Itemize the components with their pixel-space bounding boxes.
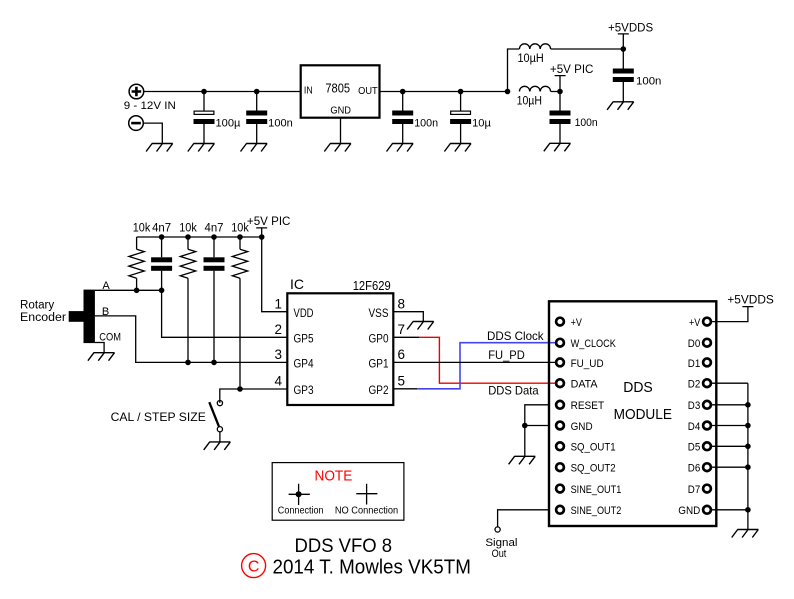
svg-text:10k: 10k [133, 223, 151, 235]
svg-text:100n: 100n [414, 118, 438, 130]
svg-text:D6: D6 [688, 463, 701, 475]
svg-text:D7: D7 [688, 484, 701, 496]
svg-text:GND: GND [330, 105, 351, 117]
svg-text:GP5: GP5 [294, 334, 314, 346]
svg-text:SINE_OUT1: SINE_OUT1 [571, 484, 622, 496]
svg-text:A: A [102, 280, 110, 292]
svg-text:W_CLOCK: W_CLOCK [571, 338, 617, 350]
svg-text:B: B [102, 306, 109, 318]
svg-text:IC: IC [290, 276, 304, 292]
svg-text:Connection: Connection [278, 505, 324, 517]
svg-text:D1: D1 [688, 358, 701, 370]
svg-text:100n: 100n [268, 118, 293, 130]
svg-text:9 - 12V IN: 9 - 12V IN [124, 100, 176, 112]
svg-text:10µH: 10µH [517, 53, 543, 65]
svg-text:7: 7 [398, 322, 406, 337]
svg-text:100n: 100n [636, 76, 661, 88]
svg-text:DDS Clock: DDS Clock [487, 329, 545, 343]
svg-text:GP1: GP1 [369, 359, 389, 371]
svg-text:DDS Data: DDS Data [488, 384, 539, 398]
svg-text:GND: GND [571, 421, 593, 433]
svg-text:CAL / STEP SIZE: CAL / STEP SIZE [111, 410, 206, 424]
svg-text:+V: +V [571, 317, 583, 329]
svg-text:1: 1 [274, 296, 282, 311]
svg-text:FU_UD: FU_UD [571, 358, 604, 370]
svg-text:GND: GND [678, 505, 700, 517]
svg-text:GP2: GP2 [369, 385, 389, 397]
svg-text:2: 2 [274, 322, 282, 337]
svg-text:NO Connection: NO Connection [335, 505, 398, 517]
svg-text:GP3: GP3 [294, 385, 314, 397]
svg-text:4n7: 4n7 [152, 223, 171, 235]
svg-text:10k: 10k [179, 223, 197, 235]
svg-text:NOTE: NOTE [315, 468, 353, 484]
svg-text:D5: D5 [688, 442, 701, 454]
svg-text:C: C [248, 559, 260, 576]
svg-text:D2: D2 [688, 379, 701, 391]
svg-text:+5VDDS: +5VDDS [608, 20, 653, 34]
svg-text:SINE_OUT2: SINE_OUT2 [571, 505, 622, 517]
svg-text:+5V PIC: +5V PIC [550, 64, 594, 76]
svg-text:10k: 10k [231, 223, 249, 235]
svg-text:100n: 100n [575, 117, 598, 129]
svg-text:2014 T. Mowles VK5TM: 2014 T. Mowles VK5TM [273, 557, 471, 579]
svg-text:GP4: GP4 [294, 359, 315, 371]
svg-text:Encoder: Encoder [20, 312, 66, 324]
svg-text:4n7: 4n7 [205, 223, 224, 235]
svg-text:RESET: RESET [571, 400, 605, 412]
svg-text:10µ: 10µ [472, 118, 491, 130]
svg-text:COM: COM [99, 332, 121, 344]
svg-text:GP0: GP0 [369, 334, 389, 346]
svg-text:DDS VFO 8: DDS VFO 8 [295, 535, 393, 557]
svg-text:D4: D4 [688, 421, 701, 433]
svg-text:VSS: VSS [369, 308, 389, 320]
svg-text:D0: D0 [688, 338, 701, 350]
svg-text:MODULE: MODULE [614, 407, 673, 423]
svg-text:VDD: VDD [294, 308, 314, 320]
svg-text:12F629: 12F629 [353, 279, 391, 293]
svg-text:4: 4 [274, 374, 282, 389]
svg-text:+V: +V [689, 317, 701, 329]
svg-text:FU_PD: FU_PD [488, 348, 525, 362]
svg-text:DATA: DATA [571, 379, 599, 391]
svg-text:8: 8 [398, 296, 406, 311]
svg-text:100µ: 100µ [216, 118, 242, 130]
svg-text:6: 6 [398, 347, 406, 362]
svg-text:+5VDDS: +5VDDS [727, 293, 774, 307]
svg-text:5: 5 [398, 374, 406, 389]
svg-text:D3: D3 [688, 400, 701, 412]
svg-text:SQ_OUT1: SQ_OUT1 [571, 442, 616, 454]
svg-text:+5V PIC: +5V PIC [247, 216, 291, 228]
svg-text:3: 3 [274, 347, 282, 362]
svg-text:DDS: DDS [623, 379, 653, 396]
svg-text:IN: IN [304, 85, 313, 97]
svg-text:OUT: OUT [358, 85, 378, 97]
svg-text:SQ_OUT2: SQ_OUT2 [571, 463, 616, 475]
svg-text:Out: Out [492, 548, 507, 560]
svg-text:7805: 7805 [325, 81, 350, 95]
svg-text:10µH: 10µH [517, 95, 542, 107]
svg-text:Rotary: Rotary [20, 300, 54, 312]
